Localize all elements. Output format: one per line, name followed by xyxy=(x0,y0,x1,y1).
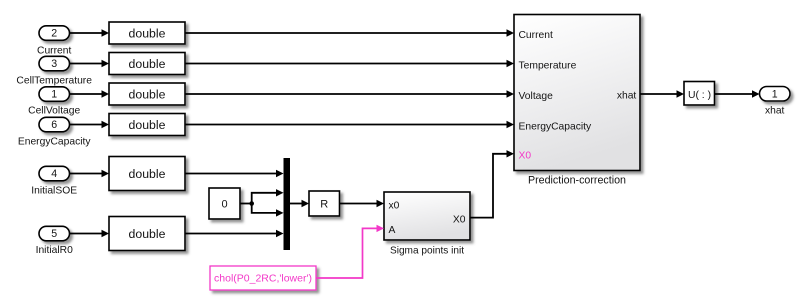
wire junction to mux input3 xyxy=(252,204,284,217)
svg-text:InitialSOE: InitialSOE xyxy=(31,186,77,197)
svg-text:double: double xyxy=(129,227,166,241)
svg-text:xhat: xhat xyxy=(617,90,637,101)
svg-text:5: 5 xyxy=(51,228,57,240)
reshape R xyxy=(309,191,340,216)
data type conversion double4 xyxy=(109,114,185,136)
wire double2 to Temperature port xyxy=(185,60,514,67)
svg-text:EnergyCapacity: EnergyCapacity xyxy=(18,136,92,147)
wire junction to mux input2 xyxy=(252,189,284,203)
svg-text:Sigma points init: Sigma points init xyxy=(390,245,464,256)
svg-text:double: double xyxy=(129,118,166,132)
svg-text:1: 1 xyxy=(51,89,57,101)
svg-text:Current: Current xyxy=(519,30,553,41)
svg-text:2: 2 xyxy=(51,28,57,40)
data type conversion double3 xyxy=(109,83,185,105)
wire Sigma X0 to Prediction X0 port xyxy=(470,150,514,218)
svg-text:chol(P0_2RC,'lower'): chol(P0_2RC,'lower') xyxy=(214,273,312,285)
data type conversion double1 xyxy=(109,22,185,44)
svg-text:X0: X0 xyxy=(519,151,532,162)
junction node xyxy=(249,201,254,206)
svg-text:3: 3 xyxy=(51,58,57,70)
wire inport3 to double2 xyxy=(70,60,110,67)
wire chol annotation to A port xyxy=(316,225,384,278)
svg-text:Current: Current xyxy=(37,46,71,57)
svg-text:Prediction-correction: Prediction-correction xyxy=(528,175,626,187)
inport 3 (CellTemperature) xyxy=(16,56,92,86)
data type conversion double2 xyxy=(109,53,185,75)
wire double6 to mux input4 xyxy=(185,230,284,237)
wire double5 to mux input1 xyxy=(185,170,284,177)
svg-text:xhat: xhat xyxy=(765,106,785,117)
inport 5 (InitialR0) xyxy=(36,226,73,256)
wire R to x0 port xyxy=(340,200,385,207)
svg-text:4: 4 xyxy=(51,168,57,180)
constant 0 xyxy=(209,188,240,219)
svg-text:0: 0 xyxy=(221,198,227,210)
svg-text:R: R xyxy=(320,199,328,211)
svg-text:CellTemperature: CellTemperature xyxy=(16,76,92,87)
svg-text:Temperature: Temperature xyxy=(519,60,577,71)
inport 1 (CellVoltage) xyxy=(28,87,80,117)
annotation chol(P0_2RC,'lower') xyxy=(210,266,316,290)
svg-text:double: double xyxy=(129,167,166,181)
wire inport5 to double6 xyxy=(70,230,110,237)
svg-text:double: double xyxy=(129,57,166,71)
wire inport1 to double3 xyxy=(70,90,110,97)
data type conversion double5 xyxy=(109,157,185,191)
svg-text:6: 6 xyxy=(51,119,57,131)
wire U(:) to outport 1 xyxy=(715,90,760,97)
svg-text:A: A xyxy=(389,225,396,236)
wire inport2 to double1 xyxy=(70,29,110,36)
wire constant to junction xyxy=(240,203,252,205)
svg-text:X0: X0 xyxy=(453,215,466,226)
wire xhat to U(:) xyxy=(640,90,684,97)
wire double3 to Voltage port xyxy=(185,90,514,97)
mux xyxy=(284,158,291,250)
wire mux to R xyxy=(290,200,309,207)
inport 2 (Current) xyxy=(37,26,71,57)
svg-text:EnergyCapacity: EnergyCapacity xyxy=(519,121,593,132)
svg-text:InitialR0: InitialR0 xyxy=(36,245,73,256)
reshape U( : ) xyxy=(684,82,715,106)
svg-text:U( : ): U( : ) xyxy=(688,90,711,101)
inport 4 (InitialSOE) xyxy=(31,166,77,196)
wire double4 to EnergyCapacity port xyxy=(185,121,514,128)
svg-text:double: double xyxy=(129,87,166,101)
outport 1 (xhat) xyxy=(760,87,791,117)
wire inport4 to double5 xyxy=(70,170,110,177)
wire inport6 to double4 xyxy=(70,121,110,128)
svg-text:Voltage: Voltage xyxy=(519,91,554,102)
svg-text:x0: x0 xyxy=(389,200,400,211)
svg-text:1: 1 xyxy=(772,88,778,100)
subsystem Sigma points init xyxy=(384,192,470,256)
inport 6 (EnergyCapacity) xyxy=(18,117,92,147)
svg-text:double: double xyxy=(129,26,166,40)
svg-text:CellVoltage: CellVoltage xyxy=(28,106,80,117)
wire double1 to Current port xyxy=(185,29,514,36)
subsystem Prediction-correction xyxy=(514,15,640,187)
data type conversion double6 xyxy=(109,217,185,251)
